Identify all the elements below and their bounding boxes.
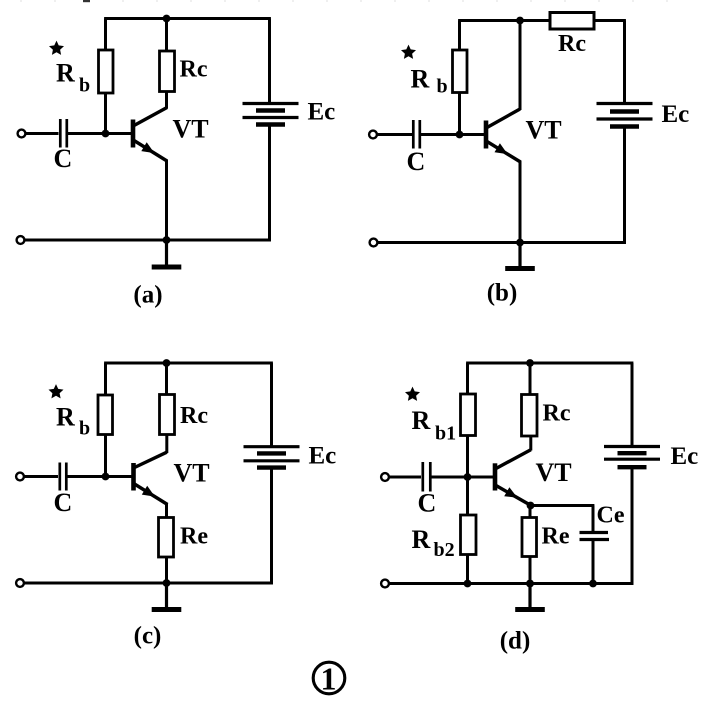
svg-text:1: 1 (321, 661, 337, 697)
svg-text:Ec: Ec (671, 443, 699, 470)
wire Rb bottom lead (c) (104, 435, 107, 477)
wire right rail upper (b) (623, 21, 626, 105)
junction Rb2-ground node (d) (464, 580, 472, 588)
wire Rb bottom lead (b) (458, 93, 461, 135)
node output terminal (a) (17, 236, 25, 244)
svg-text:Re: Re (542, 524, 570, 550)
svg-text:R: R (56, 59, 75, 88)
wire top rail (a) (104, 17, 271, 20)
wire Re bottom lead (c) (165, 557, 168, 583)
ground (a) bar (152, 265, 182, 270)
wire Rc top lead (c) (165, 363, 168, 396)
capacitor C (a) (59, 119, 62, 148)
wire input (d) (390, 476, 422, 479)
transistor VT (b) base bar (484, 121, 489, 149)
svg-text:b1: b1 (435, 423, 456, 445)
wire base (a) (68, 132, 133, 135)
figure number 1 circle (313, 662, 345, 694)
wire top rail left (b) (458, 19, 551, 22)
capacitor C (d) (421, 462, 424, 492)
resistor Rb (b) (453, 50, 468, 93)
transistor VT (a) collector (134, 108, 167, 126)
wire Ce top lead (d) (592, 506, 595, 534)
wire collector up (b) (519, 21, 522, 111)
junction top node (b) (516, 17, 524, 25)
wire right rail upper (a) (268, 19, 271, 105)
wire input (c) (25, 475, 59, 478)
junction top node (a) (163, 15, 171, 23)
wire collector lead (c) (165, 435, 168, 454)
wire collector lead (d) (529, 436, 532, 451)
wire emitter to Re (d) (529, 506, 532, 519)
wire base (d) (432, 476, 496, 479)
wire right rail upper (d) (631, 363, 634, 447)
battery Ec (b) negative plate (610, 109, 639, 113)
battery Ec (d) negative plate 2 (618, 465, 647, 469)
junction top node (c) (163, 359, 171, 367)
label * (c) (49, 384, 64, 398)
transistor VT (b) collector (487, 109, 520, 128)
wire top rail (c) (104, 362, 273, 365)
junction emitter-ground node (d) (526, 580, 534, 588)
transistor VT (c) collector (135, 452, 167, 467)
wire Rc top lead (a) (165, 19, 168, 53)
resistor Rb2 (d) (461, 515, 477, 555)
wire emitter to Re (c) (165, 503, 168, 519)
wire Rc top lead (d) (529, 363, 532, 396)
resistor Rc (b) (550, 13, 594, 30)
svg-text:Ec: Ec (308, 99, 336, 126)
ground (b) lead (518, 243, 521, 269)
battery Ec (b) negative plate 2 (610, 124, 639, 128)
capacitor C (b) (412, 120, 415, 149)
wire Rb2 bottom lead (d) (466, 555, 469, 584)
resistor Re (d) (522, 518, 537, 557)
wire collector lead (a) (165, 92, 168, 109)
resistor Rc (d) (522, 395, 538, 437)
wire emitter down (b) (519, 161, 522, 243)
svg-text:VT: VT (173, 115, 209, 144)
node output terminal (d) (381, 580, 389, 588)
svg-text:(d): (d) (500, 628, 531, 655)
battery Ec (a) positive plate 2 (243, 116, 299, 119)
ground (d) lead (528, 584, 531, 610)
scan artifact: faint dotted line at top edge (20, 0, 695, 2)
junction base node (c) (102, 473, 110, 481)
svg-text:Rc: Rc (558, 31, 586, 57)
battery Ec (b) positive plate 2 (597, 117, 653, 120)
svg-text:Ce: Ce (597, 503, 625, 529)
ground (a) lead (165, 240, 168, 267)
wire right rail upper (c) (270, 363, 273, 447)
battery Ec (a) negative plate (256, 108, 285, 112)
wire emitter down (a) (165, 160, 168, 241)
capacitor C (c) (58, 463, 61, 491)
svg-text:VT: VT (536, 458, 572, 487)
junction emitter-ground node (c) (163, 579, 171, 587)
wire right rail lower (b) (623, 127, 626, 244)
junction top node (d) (526, 359, 534, 367)
node output terminal (c) (16, 579, 24, 587)
svg-text:R: R (411, 65, 430, 94)
node input terminal (b) (369, 131, 377, 139)
battery Ec (a) negative plate 2 (256, 122, 285, 126)
svg-text:b: b (79, 75, 90, 97)
svg-text:C: C (407, 147, 426, 176)
wire Re bottom lead (d) (529, 557, 532, 584)
transistor VT (a) base bar (131, 120, 136, 148)
transistor VT (c) base bar (131, 463, 136, 491)
wire input (b) (378, 133, 413, 136)
svg-text:(a): (a) (133, 282, 162, 309)
wire top rail right (b) (594, 19, 626, 22)
junction emitter node (d) (527, 502, 535, 510)
wire input (a) (26, 132, 59, 135)
label * (b) (401, 45, 416, 59)
wire emitter to Ce (d) (530, 504, 594, 507)
svg-text:VT: VT (526, 116, 562, 145)
resistor Rc (a) (160, 51, 175, 92)
transistor VT (a) emitter (134, 141, 167, 162)
resistor Rb (c) (98, 395, 113, 435)
junction emitter-ground node (a) (163, 236, 171, 244)
resistor Re (c) (159, 518, 174, 558)
svg-text:b: b (79, 418, 90, 440)
transistor VT (d) base bar (493, 463, 498, 490)
transistor VT (a) emitter arrow (141, 142, 154, 153)
svg-text:b: b (437, 76, 448, 98)
wire Rb top lead (c) (104, 363, 107, 396)
node output terminal (b) (370, 239, 378, 247)
svg-text:C: C (54, 144, 73, 173)
transistor VT (c) emitter (135, 484, 168, 505)
battery Ec (c) negative plate (257, 451, 286, 455)
junction base node (b) (456, 131, 464, 139)
wire bottom rail (d) (390, 582, 634, 585)
node input terminal (d) (381, 473, 389, 481)
ground (d) bar (515, 607, 545, 612)
wire Ce bottom lead (d) (592, 540, 595, 584)
transistor VT (b) emitter arrow (495, 143, 508, 154)
battery Ec (c) negative plate 2 (257, 465, 286, 469)
ground (b) bar (505, 266, 535, 271)
transistor VT (d) collector (496, 450, 531, 469)
svg-text:Ec: Ec (662, 101, 690, 128)
wire Rb bottom lead (a) (104, 93, 107, 134)
resistor Rb1 (d) (461, 394, 476, 436)
wire bottom rail (b) (378, 241, 626, 244)
transistor VT (d) emitter arrow (504, 487, 517, 498)
node input terminal (c) (16, 473, 24, 481)
junction base node (d) (464, 473, 472, 481)
battery Ec (d) positive plate (604, 445, 660, 448)
junction Ce-ground node (d) (589, 580, 597, 588)
label * (d) (405, 387, 420, 401)
wire bottom rail (c) (25, 582, 273, 585)
wire bottom rail (a) (25, 239, 271, 242)
wire top rail (d) (466, 362, 633, 365)
wire base (c) (68, 475, 134, 478)
svg-text:VT: VT (174, 459, 210, 488)
junction Re-ground node (d) (526, 580, 534, 588)
ground (c) bar (152, 607, 182, 612)
wire right rail lower (c) (270, 468, 273, 585)
capacitor Ce (d) (580, 531, 609, 534)
svg-text:R: R (412, 525, 431, 554)
svg-text:Re: Re (180, 524, 208, 550)
wire Rb top lead (b) (458, 21, 461, 52)
battery Ec (c) positive plate 2 (244, 459, 300, 462)
wire Rb1 top lead (d) (466, 363, 469, 395)
junction emitter-ground node (b) (516, 239, 524, 247)
svg-text:Ec: Ec (309, 443, 337, 470)
svg-text:Rc: Rc (543, 401, 571, 427)
battery Ec (c) positive plate (244, 445, 300, 448)
resistor Rb (a) (99, 50, 114, 93)
svg-text:Rc: Rc (180, 57, 208, 83)
battery Ec (a) positive plate (243, 102, 299, 105)
svg-text:C: C (54, 488, 73, 517)
svg-text:b2: b2 (434, 539, 455, 561)
battery Ec (d) negative plate (618, 451, 647, 455)
svg-text:C: C (418, 489, 437, 518)
battery Ec (d) positive plate 2 (604, 458, 660, 461)
battery Ec (b) positive plate (597, 102, 653, 105)
transistor VT (c) emitter arrow (142, 486, 155, 497)
node input terminal (a) (18, 130, 26, 138)
wire base (b) (421, 133, 486, 136)
svg-text:(b): (b) (487, 280, 518, 307)
svg-text:R: R (56, 403, 75, 432)
ground (c) lead (165, 583, 168, 610)
wire Rb1 bottom lead (d) (466, 436, 469, 478)
resistor Rc (c) (160, 395, 175, 435)
wire Rb top lead (a) (104, 19, 107, 52)
transistor VT (d) emitter (496, 486, 531, 506)
wire Rb2 top lead (d) (466, 477, 469, 516)
wire right rail lower (d) (631, 467, 634, 585)
wire right rail lower (a) (268, 125, 271, 242)
junction base node (a) (102, 130, 110, 138)
label * (a) (49, 41, 64, 55)
svg-text:(c): (c) (134, 623, 162, 650)
svg-text:R: R (412, 406, 431, 435)
transistor VT (b) emitter (487, 142, 521, 163)
svg-text:Rc: Rc (180, 403, 208, 429)
